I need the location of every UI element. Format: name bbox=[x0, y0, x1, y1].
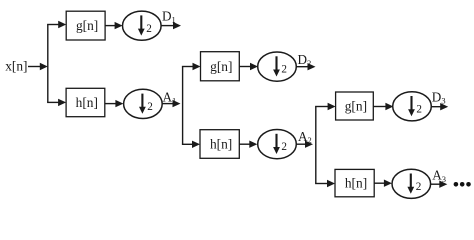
svg-text:2: 2 bbox=[146, 23, 152, 35]
wire stage3 to h[n] bbox=[315, 180, 335, 187]
svg-text:A1: A1 bbox=[163, 90, 177, 106]
wire stage1 to g[n] bbox=[47, 21, 66, 28]
wire output A3 arrow bbox=[431, 181, 448, 188]
svg-text:2: 2 bbox=[416, 181, 422, 193]
svg-text:2: 2 bbox=[416, 103, 422, 115]
filter h[n] stage2 lowpass bbox=[200, 130, 239, 159]
wire g3 to downsampler bbox=[373, 103, 393, 110]
wire g1 to downsampler bbox=[105, 22, 123, 29]
filter g[n] stage2 highpass bbox=[201, 52, 240, 81]
downsampler stage2 top (down-2) bbox=[258, 52, 297, 81]
wire stage2 to h[n] bbox=[182, 141, 200, 148]
wire A1 to stage2 branch bbox=[162, 100, 180, 107]
svg-text:2: 2 bbox=[281, 141, 287, 153]
svg-text:2: 2 bbox=[147, 101, 153, 113]
wire h2 to downsampler bbox=[239, 141, 257, 148]
wire output D1 arrow bbox=[161, 22, 181, 29]
filter h[n] stage3 lowpass bbox=[335, 169, 374, 196]
wire stage1 to h[n] bbox=[47, 99, 66, 106]
wire stage1 branch vertical bbox=[47, 25, 49, 103]
wire stage2 to g[n] bbox=[182, 63, 201, 70]
wire stage3 to g[n] bbox=[315, 103, 336, 110]
filter g[n] stage1 highpass bbox=[66, 11, 105, 40]
svg-text:2: 2 bbox=[281, 64, 287, 76]
downsampler stage3 bottom (down-2) bbox=[392, 169, 431, 198]
wire output D3 arrow bbox=[431, 103, 448, 110]
wire g2 to downsampler bbox=[239, 63, 258, 70]
wire h1 to downsampler bbox=[105, 100, 124, 107]
svg-text:h[n]: h[n] bbox=[345, 176, 367, 191]
wire output D2 arrow bbox=[296, 63, 316, 70]
downsampler stage1 top (down-2) bbox=[123, 11, 162, 40]
downsampler stage1 bottom (down-2) bbox=[124, 89, 163, 118]
svg-text:D1: D1 bbox=[162, 8, 176, 24]
wire stage2 branch vertical bbox=[182, 67, 184, 145]
filter g[n] stage3 highpass bbox=[336, 92, 374, 120]
downsampler stage2 bottom (down-2) bbox=[258, 130, 297, 159]
svg-text:A3: A3 bbox=[432, 168, 446, 184]
svg-text:A2: A2 bbox=[298, 129, 312, 145]
svg-text:g[n]: g[n] bbox=[345, 99, 367, 114]
wire input arrow into branch node bbox=[28, 63, 48, 70]
svg-text:g[n]: g[n] bbox=[76, 18, 98, 33]
svg-text:h[n]: h[n] bbox=[210, 137, 232, 152]
wire h3 to downsampler bbox=[374, 180, 392, 187]
svg-text:x[n]: x[n] bbox=[5, 59, 27, 74]
svg-text:h[n]: h[n] bbox=[76, 95, 98, 110]
wire A2 to stage3 branch bbox=[297, 141, 313, 148]
filter h[n] stage1 lowpass bbox=[66, 88, 105, 116]
svg-text:D2: D2 bbox=[298, 52, 312, 68]
wire stage3 branch vertical bbox=[315, 107, 317, 184]
downsampler stage3 top (down-2) bbox=[393, 92, 432, 121]
svg-text:D3: D3 bbox=[432, 89, 446, 105]
svg-text:g[n]: g[n] bbox=[210, 59, 232, 74]
continuation dots ellipsis bbox=[454, 182, 471, 187]
